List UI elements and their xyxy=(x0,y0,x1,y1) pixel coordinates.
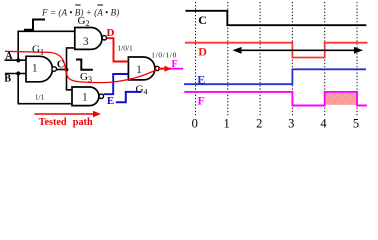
svg-text:B: B xyxy=(4,73,11,84)
svg-text:F: F xyxy=(172,59,178,70)
svg-text:Tested: Tested xyxy=(39,117,67,128)
svg-text:1/0/1: 1/0/1 xyxy=(117,43,133,52)
svg-text:1: 1 xyxy=(223,117,229,131)
svg-text:path: path xyxy=(73,117,93,128)
svg-text:5: 5 xyxy=(353,117,359,131)
svg-text:1: 1 xyxy=(82,92,88,104)
svg-text:3: 3 xyxy=(288,117,294,131)
svg-text:4: 4 xyxy=(320,117,327,131)
svg-text:D: D xyxy=(198,44,207,58)
svg-text:2: 2 xyxy=(256,117,262,131)
svg-text:1: 1 xyxy=(136,64,142,76)
svg-text:C: C xyxy=(198,13,207,27)
svg-text:C: C xyxy=(57,60,64,71)
svg-text:0: 0 xyxy=(192,117,198,131)
svg-text:E: E xyxy=(107,95,114,107)
svg-text:F: F xyxy=(198,93,205,107)
svg-text:E: E xyxy=(197,72,205,86)
svg-text:1/1: 1/1 xyxy=(35,92,45,101)
svg-text:1: 1 xyxy=(32,63,38,75)
svg-text:3: 3 xyxy=(83,36,89,48)
svg-text:1/0/1/0: 1/0/1/0 xyxy=(151,51,176,60)
svg-text:D: D xyxy=(107,27,115,39)
svg-text:A: A xyxy=(5,51,13,62)
